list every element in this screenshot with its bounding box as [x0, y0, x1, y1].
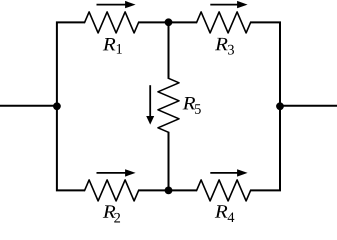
resistor R1: [85, 12, 139, 33]
label R2: [103, 205, 120, 222]
wire: R3 exit through top-right corner down to node C: [250, 22, 280, 106]
wire: node B down to R5 top lead: [168, 22, 170, 79]
current arrow left of R5 (downward): [146, 85, 154, 124]
label R5: [183, 97, 201, 114]
current arrow above R4: [210, 169, 247, 176]
node B (top junction): [165, 18, 173, 26]
current arrow above R3: [210, 1, 247, 8]
current arrow above R2: [97, 169, 136, 176]
label R4: [215, 205, 235, 222]
current arrow above R1: [97, 1, 136, 8]
wire: right terminal stub: [280, 105, 337, 107]
wire: node C down through bottom-right corner to R4 exit: [250, 106, 280, 190]
wire: node B to R3 entry: [169, 21, 198, 23]
label R3: [215, 38, 234, 55]
resistor R5: [158, 78, 179, 132]
label R1: [103, 38, 122, 54]
resistor R2: [85, 180, 139, 201]
wire: left terminal stub: [0, 105, 57, 107]
resistor R4: [197, 180, 251, 201]
wire: R4 entry to node D: [169, 189, 198, 191]
wire: R5 bottom lead to node D: [168, 132, 170, 191]
node C (right junction): [276, 102, 284, 110]
resistor R3: [197, 12, 251, 33]
node A (left junction): [53, 102, 61, 110]
node D (bottom junction): [165, 187, 173, 195]
wire: node D to R2 exit: [138, 189, 168, 191]
wire: R1 exit to node B: [138, 21, 168, 23]
wire: node A up through top-left corner to R1 entry: [57, 22, 85, 106]
wire: R2 entry through bottom-left corner up to node A: [57, 106, 85, 190]
